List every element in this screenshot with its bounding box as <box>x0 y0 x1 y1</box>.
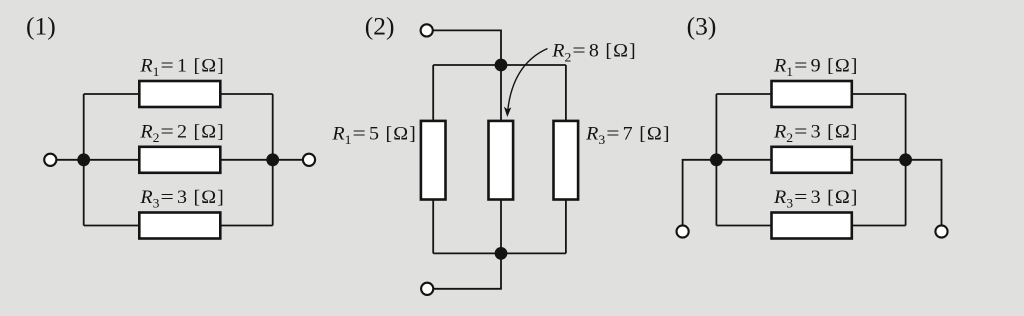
wire: circuit 2 right drop upper <box>565 65 567 121</box>
node: circuit 2 top junction <box>495 59 508 72</box>
wire: circuit 3 right rail <box>905 94 907 226</box>
wire: circuit 3 branch R2 right <box>852 159 906 161</box>
value label R3=3[Ω] (circuit 1) <box>139 187 223 210</box>
wire: circuit 1 branch R1 right <box>220 93 272 95</box>
svg-text:R1=1[Ω]: R1=1[Ω] <box>139 56 223 79</box>
svg-text:R3=3[Ω]: R3=3[Ω] <box>139 187 223 210</box>
leader arrow from R2 label to resistor R2 (circuit 2) <box>508 49 548 111</box>
resistor R1 (circuit 2) <box>421 121 446 200</box>
value label R1=5[Ω] (circuit 2) <box>331 124 415 147</box>
wire: circuit 3 branch R1 right <box>852 93 906 95</box>
node: circuit 3 right junction <box>899 153 912 166</box>
wire: circuit 1 branch R3 right <box>220 225 272 227</box>
wire: circuit 2 top terminal lead <box>427 30 501 65</box>
terminal: circuit 3 left <box>677 225 689 237</box>
wire: circuit 1 branch R3 left <box>84 225 140 227</box>
wire: circuit 2 left drop upper <box>432 65 434 121</box>
value label R2=3[Ω] (circuit 3) <box>773 122 857 145</box>
wire: circuit 1 branch R1 left <box>84 93 140 95</box>
value label R3=7[Ω] (circuit 2) <box>585 124 669 147</box>
wire: circuit 1 right rail <box>272 94 274 226</box>
resistor R1 (circuit 1) <box>139 81 220 107</box>
wire: circuit 3 branch R3 right <box>852 225 906 227</box>
wire: circuit 2 top bus <box>433 64 566 66</box>
node: circuit 1 right junction <box>266 153 279 166</box>
svg-text:(3): (3) <box>687 12 717 41</box>
resistor R3 (circuit 3) <box>772 213 852 239</box>
wire: circuit 2 middle drop upper <box>500 65 502 121</box>
wire: circuit 2 left drop lower <box>432 200 434 254</box>
terminal: circuit 3 right <box>935 225 947 237</box>
svg-text:R1=5[Ω]: R1=5[Ω] <box>331 124 415 147</box>
terminal: circuit 2 bottom <box>421 283 433 295</box>
wire: circuit 2 middle drop lower <box>500 200 502 254</box>
svg-text:R2=8[Ω]: R2=8[Ω] <box>551 41 635 64</box>
resistor R3 (circuit 2) <box>554 121 579 200</box>
svg-text:(1): (1) <box>26 12 56 41</box>
terminal: circuit 2 top <box>421 24 433 36</box>
wire: circuit 1 left rail <box>83 94 85 226</box>
resistor R3 (circuit 1) <box>139 213 220 239</box>
wire: circuit 3 left rail <box>715 94 717 226</box>
wire: circuit 1 right terminal lead <box>273 159 309 161</box>
wire: circuit 3 branch R2 left <box>716 159 771 161</box>
terminal: circuit 1 left <box>44 154 56 166</box>
svg-text:R3=7[Ω]: R3=7[Ω] <box>585 124 669 147</box>
resistor R1 (circuit 3) <box>772 81 852 107</box>
node: circuit 3 left junction <box>710 153 723 166</box>
wire: circuit 3 branch R3 left <box>716 225 771 227</box>
resistor R2 (circuit 1) <box>139 147 220 173</box>
wire: circuit 2 bottom terminal lead <box>427 253 501 288</box>
svg-text:R2=2[Ω]: R2=2[Ω] <box>139 122 223 145</box>
value label R2=8[Ω] (circuit 2) <box>551 41 635 64</box>
node: circuit 1 left junction <box>77 153 90 166</box>
wire: circuit 2 right drop lower <box>565 200 567 254</box>
wire: circuit 1 left terminal lead <box>50 159 83 161</box>
wire: circuit 3 left terminal lead <box>683 160 717 232</box>
svg-text:R2=3[Ω]: R2=3[Ω] <box>773 122 857 145</box>
resistor R2 (circuit 3) <box>772 147 852 173</box>
wire: circuit 3 right terminal lead <box>906 160 942 232</box>
svg-text:R3=3[Ω]: R3=3[Ω] <box>773 187 857 210</box>
value label R1=1[Ω] (circuit 1) <box>139 56 223 79</box>
terminal: circuit 1 right <box>303 154 315 166</box>
node: circuit 2 bottom junction <box>495 247 508 260</box>
arrowhead of leader arrow (circuit 2) <box>504 107 511 117</box>
resistor R2 (circuit 2) <box>489 121 514 200</box>
svg-text:R1=9[Ω]: R1=9[Ω] <box>773 56 857 79</box>
wire: circuit 3 branch R1 left <box>716 93 771 95</box>
wire: circuit 2 bottom bus <box>433 252 566 254</box>
wire: circuit 1 branch R2 left <box>84 159 140 161</box>
wire: circuit 1 branch R2 right <box>220 159 272 161</box>
value label R1=9[Ω] (circuit 3) <box>773 56 857 79</box>
value label R2=2[Ω] (circuit 1) <box>139 122 223 145</box>
value label R3=3[Ω] (circuit 3) <box>773 187 857 210</box>
svg-text:(2): (2) <box>365 12 395 41</box>
